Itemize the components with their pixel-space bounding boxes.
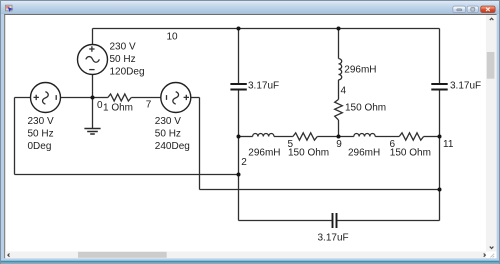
maximize button [467, 6, 478, 13]
node dot top-middle branch [337, 27, 341, 31]
wire mid rail seg c [317, 136, 354, 138]
inductor 296mH horizontal 2 [354, 133, 375, 136]
svg-text:240Deg: 240Deg [155, 141, 190, 152]
svg-text:150 Ohm: 150 Ohm [345, 102, 386, 113]
node dot lower right [438, 188, 442, 192]
node dot top-left branch [237, 27, 241, 31]
node 2 dot [237, 173, 241, 177]
svg-text:150 Ohm: 150 Ohm [390, 147, 431, 158]
svg-text:296mH: 296mH [248, 147, 280, 158]
title bar [1, 1, 499, 14]
source V3 bar [166, 95, 168, 100]
svg-text:50 Hz: 50 Hz [155, 128, 181, 139]
svg-text:150 Ohm: 150 Ohm [288, 147, 329, 158]
source V3 sine [173, 92, 179, 105]
svg-text:230 V: 230 V [28, 116, 54, 127]
source V1 sine [86, 57, 100, 63]
wire V2 left loop down [14, 98, 16, 175]
wire V1 bottom lead [92, 74, 94, 97]
wire R1 to V3 [131, 97, 161, 99]
capacitor C3 3.17uF plates [333, 213, 337, 228]
capacitor C2 3.17uF plates [431, 84, 447, 90]
wire middle branch below R [338, 120, 340, 137]
wire mid rail seg b [274, 136, 293, 138]
wire left branch node2 down [238, 137, 240, 221]
svg-text:3.17uF: 3.17uF [450, 81, 481, 92]
node 9 dot [337, 135, 341, 139]
inductor 296mH horizontal 1 [253, 133, 274, 136]
source V2 sine [43, 92, 49, 105]
wire right branch top [439, 29, 441, 84]
source V1 circle 120deg [78, 45, 108, 75]
ground bars [84, 129, 100, 135]
horizontal scrollbar [5, 251, 494, 258]
source V1 plus [89, 46, 94, 51]
svg-text:230 V: 230 V [155, 116, 181, 127]
wire V3 right lead [191, 97, 200, 99]
svg-text:0Deg: 0Deg [28, 141, 52, 152]
capacitor C1 3.17uF plates [230, 84, 246, 90]
canvas border left [4, 14, 5, 258]
svg-text:7: 7 [146, 100, 152, 111]
wire middle branch top [338, 29, 340, 59]
close button [481, 6, 495, 13]
wire junction0 to V2 [60, 97, 92, 99]
minimize button [453, 6, 466, 13]
svg-text:50 Hz: 50 Hz [28, 129, 54, 140]
wire V3 down [199, 98, 201, 190]
source V1 minus [89, 69, 94, 71]
svg-text:10: 10 [167, 31, 179, 42]
wire mid rail seg d [375, 136, 399, 138]
wire V2 left lead [15, 97, 31, 99]
resistor 1 Ohm [108, 94, 131, 101]
source V2 plus [34, 95, 39, 100]
bottom frame teal line [1, 261, 499, 263]
wire mid rail seg e [424, 136, 440, 138]
svg-text:11: 11 [443, 139, 454, 150]
wire bottom rail right of C3 [337, 220, 439, 222]
resistor 150 Ohm vertical [335, 99, 343, 120]
wire bottom loop to node 2 [15, 174, 239, 176]
inductor 296mH vertical [339, 59, 342, 80]
wire top rail node 10 [93, 28, 440, 30]
wire left branch below C1 [238, 90, 240, 136]
wire right branch below C2 [439, 90, 441, 220]
svg-text:296mH: 296mH [344, 64, 376, 75]
node dot mid rail left [237, 135, 241, 139]
svg-text:3.17uF: 3.17uF [248, 81, 279, 92]
wire node0 to R1 [93, 97, 108, 99]
ground stem [92, 98, 94, 129]
vertical scrollbar [486, 15, 497, 252]
source V3 circle 240deg [161, 83, 191, 113]
canvas border top [4, 14, 496, 15]
svg-text:4: 4 [341, 86, 347, 97]
svg-text:9: 9 [336, 139, 342, 150]
app icon [5, 5, 13, 12]
source V3 plus [184, 95, 189, 100]
node 11 dot [438, 135, 442, 139]
wire bottom rail left of C3 [239, 220, 332, 222]
wire lower rail to node at right [200, 189, 440, 191]
svg-text:50 Hz: 50 Hz [110, 54, 136, 65]
svg-text:2: 2 [241, 157, 247, 168]
wire left branch upper [238, 29, 240, 84]
resistor 150 Ohm horizontal 2 [399, 133, 423, 140]
svg-text:296mH: 296mH [348, 147, 380, 158]
wire mid rail seg a [239, 136, 253, 138]
node 0 dot [91, 96, 95, 100]
source V2 bar [55, 95, 57, 100]
svg-text:230 V: 230 V [110, 42, 136, 53]
wire middle branch between L and R [338, 80, 340, 100]
resistor 150 Ohm horizontal 1 [293, 133, 317, 140]
wire V1 top lead [92, 29, 94, 45]
svg-text:3.17uF: 3.17uF [318, 233, 349, 244]
svg-text:1 Ohm: 1 Ohm [103, 103, 133, 114]
svg-text:120Deg: 120Deg [110, 67, 145, 78]
source V2 circle 0deg [31, 83, 61, 113]
